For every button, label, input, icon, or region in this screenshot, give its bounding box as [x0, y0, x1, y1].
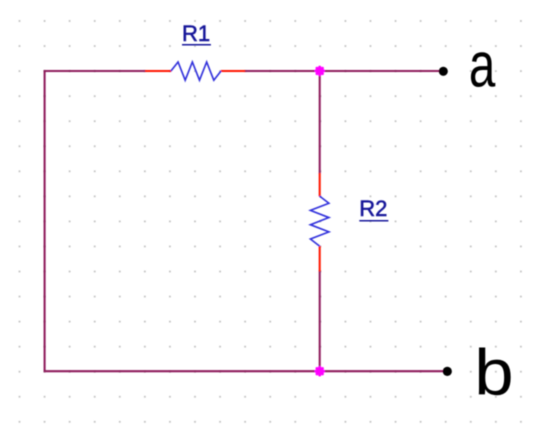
terminal dot a — [439, 67, 448, 76]
svg-text:b: b — [474, 336, 513, 409]
wire: top segment from R1 pin 2 to terminal a — [245, 70, 439, 72]
resistor R1 pin leads — [145, 70, 245, 72]
svg-text:R1: R1 — [182, 21, 210, 46]
svg-text:R2: R2 — [359, 196, 387, 221]
junction node at bottom — [314, 366, 325, 377]
resistor R2 zigzag body — [310, 196, 329, 246]
wire: middle vertical from top junction to R2 pin 1 — [319, 71, 321, 174]
resistor R1 zigzag body — [171, 62, 221, 80]
wire: main loop (top-left, left, bottom segments) — [45, 71, 443, 371]
svg-text:a: a — [469, 29, 496, 100]
wire: middle vertical from R2 pin 2 to bottom junction — [319, 271, 321, 372]
resistor R2 pin leads — [319, 173, 321, 272]
terminal dot b — [443, 367, 452, 376]
junction node at top — [314, 66, 325, 77]
